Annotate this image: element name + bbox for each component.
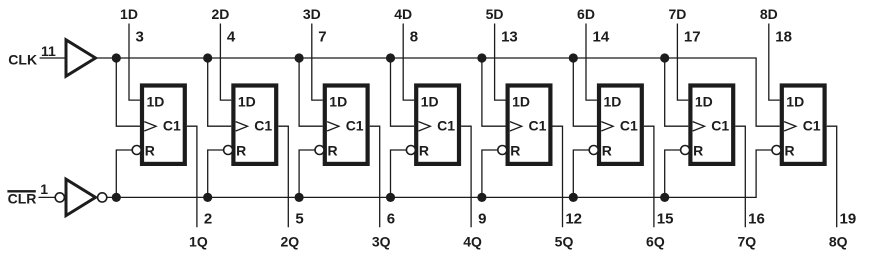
svg-text:1D: 1D bbox=[604, 94, 622, 110]
svg-text:18: 18 bbox=[775, 28, 792, 45]
svg-text:4Q: 4Q bbox=[463, 233, 482, 249]
svg-text:C1: C1 bbox=[437, 117, 455, 133]
svg-text:11: 11 bbox=[41, 43, 56, 59]
svg-text:5: 5 bbox=[295, 211, 303, 228]
svg-text:6D: 6D bbox=[577, 6, 595, 22]
svg-text:8: 8 bbox=[410, 28, 418, 45]
svg-text:1Q: 1Q bbox=[189, 233, 208, 249]
svg-text:1D: 1D bbox=[695, 94, 713, 110]
svg-text:1D: 1D bbox=[120, 6, 138, 22]
svg-text:12: 12 bbox=[565, 211, 582, 228]
svg-text:1D: 1D bbox=[421, 94, 439, 110]
svg-text:7: 7 bbox=[318, 28, 326, 45]
svg-text:6Q: 6Q bbox=[646, 233, 665, 249]
svg-text:C1: C1 bbox=[620, 117, 638, 133]
svg-text:R: R bbox=[602, 143, 612, 159]
svg-text:CLR: CLR bbox=[8, 190, 37, 206]
svg-text:19: 19 bbox=[840, 211, 857, 228]
svg-text:14: 14 bbox=[593, 28, 610, 45]
svg-text:7D: 7D bbox=[668, 6, 686, 22]
svg-text:9: 9 bbox=[478, 211, 486, 228]
svg-text:16: 16 bbox=[748, 211, 765, 228]
svg-text:7Q: 7Q bbox=[737, 233, 756, 249]
svg-text:15: 15 bbox=[657, 211, 674, 228]
svg-text:1D: 1D bbox=[329, 94, 347, 110]
svg-text:3D: 3D bbox=[303, 6, 321, 22]
svg-text:1D: 1D bbox=[512, 94, 530, 110]
svg-text:R: R bbox=[419, 143, 429, 159]
svg-text:1D: 1D bbox=[238, 94, 256, 110]
svg-text:R: R bbox=[328, 143, 338, 159]
svg-text:R: R bbox=[693, 143, 703, 159]
svg-text:5D: 5D bbox=[486, 6, 504, 22]
svg-text:17: 17 bbox=[684, 28, 701, 45]
svg-text:4D: 4D bbox=[394, 6, 412, 22]
svg-text:C1: C1 bbox=[803, 117, 821, 133]
svg-text:3: 3 bbox=[136, 28, 144, 45]
svg-text:8Q: 8Q bbox=[829, 233, 848, 249]
svg-text:1D: 1D bbox=[147, 94, 165, 110]
svg-text:2Q: 2Q bbox=[280, 233, 299, 249]
svg-text:6: 6 bbox=[387, 211, 395, 228]
svg-text:R: R bbox=[145, 143, 155, 159]
svg-text:CLK: CLK bbox=[8, 51, 37, 67]
svg-text:C1: C1 bbox=[529, 117, 547, 133]
svg-text:13: 13 bbox=[501, 28, 518, 45]
svg-text:C1: C1 bbox=[163, 117, 181, 133]
svg-text:C1: C1 bbox=[346, 117, 364, 133]
svg-text:R: R bbox=[236, 143, 246, 159]
svg-text:1: 1 bbox=[40, 181, 48, 197]
svg-text:3Q: 3Q bbox=[372, 233, 391, 249]
svg-text:1D: 1D bbox=[786, 94, 804, 110]
svg-text:2: 2 bbox=[204, 211, 212, 228]
svg-text:R: R bbox=[785, 143, 795, 159]
svg-text:4: 4 bbox=[227, 28, 236, 45]
svg-text:8D: 8D bbox=[760, 6, 778, 22]
svg-text:C1: C1 bbox=[254, 117, 272, 133]
svg-text:2D: 2D bbox=[211, 6, 229, 22]
svg-text:C1: C1 bbox=[711, 117, 729, 133]
svg-text:5Q: 5Q bbox=[555, 233, 574, 249]
svg-text:R: R bbox=[510, 143, 520, 159]
